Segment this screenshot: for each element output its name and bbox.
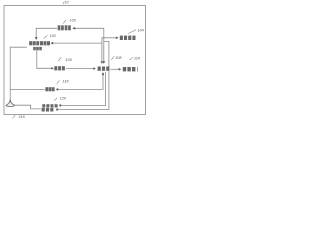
- svg-text:116: 116: [19, 115, 26, 119]
- svg-text:106: 106: [65, 58, 72, 62]
- svg-text:110: 110: [134, 57, 141, 61]
- svg-text:108: 108: [115, 56, 122, 60]
- svg-text:118: 118: [62, 80, 69, 84]
- svg-text:100: 100: [70, 19, 77, 23]
- svg-text:120: 120: [60, 97, 67, 101]
- svg-text:104: 104: [137, 29, 143, 33]
- svg-text:10: 10: [65, 0, 69, 4]
- svg-text:102: 102: [50, 34, 57, 38]
